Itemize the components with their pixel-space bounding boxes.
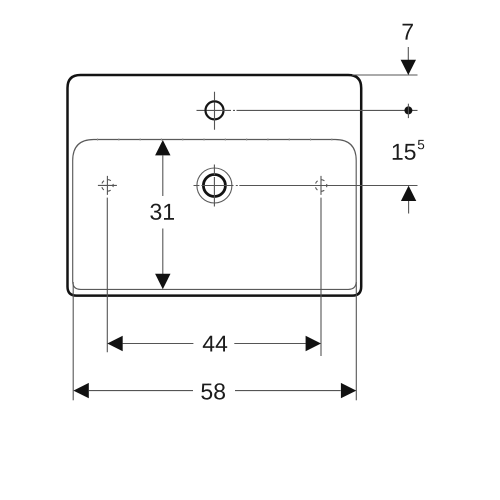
dimension 15-5 dot vertical tick bbox=[407, 104, 409, 118]
extension line basin left down bbox=[72, 282, 74, 400]
dimension 31 arrow up bbox=[155, 140, 170, 155]
dimension 58 label bbox=[201, 383, 225, 399]
dimension 7 label bbox=[403, 24, 413, 40]
extension line left fixing hole down bbox=[106, 198, 108, 353]
dimension 15-5 arrow up bbox=[401, 186, 416, 201]
dimension 44 line right bbox=[234, 343, 305, 345]
dimension 44 arrow left bbox=[107, 336, 122, 351]
tap hole crosshair vertical bbox=[214, 92, 216, 130]
extension line top edge to right bbox=[352, 74, 418, 76]
dimension 7 arrow down bbox=[401, 60, 416, 75]
drain crosshair horizontal bbox=[194, 185, 234, 187]
drain hole outer circle bbox=[197, 168, 232, 203]
dimension 31 line lower bbox=[162, 229, 164, 275]
dimension 44 arrow right bbox=[306, 336, 321, 351]
dimension 44 label bbox=[203, 336, 227, 352]
extension line tap hole to right bbox=[233, 109, 418, 111]
dimension 7 leader line bbox=[407, 47, 409, 60]
dimension 15-5 label bbox=[393, 140, 425, 160]
dimension 15-5 dot endpoint bbox=[404, 106, 412, 114]
dimension 58 line right bbox=[235, 390, 341, 392]
dimension 15-5 arrow tail bbox=[408, 201, 410, 214]
drain hole inner circle bbox=[203, 175, 225, 197]
dimension 58 arrow right bbox=[341, 383, 356, 398]
extension line fixing holes to right bbox=[236, 185, 418, 187]
dimension 31 arrow down bbox=[155, 274, 170, 289]
basin inner bowl outline bbox=[73, 140, 357, 290]
dimension 44 line left bbox=[123, 343, 194, 345]
right fixing hole cross bbox=[312, 176, 331, 195]
dimension 58 arrow left bbox=[73, 383, 88, 398]
extension line right fixing hole down bbox=[320, 198, 322, 356]
extension line basin right down bbox=[355, 282, 357, 400]
left fixing hole cross bbox=[98, 176, 117, 195]
dimension 31 label bbox=[150, 204, 174, 220]
dimension 31 line upper bbox=[162, 155, 164, 196]
tap hole circle bbox=[206, 101, 224, 119]
basin outer outline bbox=[68, 75, 362, 296]
dimension 58 line left bbox=[89, 390, 193, 392]
tap hole crosshair horizontal bbox=[197, 109, 232, 111]
inner bowl top edge node ticks bbox=[97, 139, 340, 141]
drain crosshair vertical bbox=[213, 165, 215, 207]
